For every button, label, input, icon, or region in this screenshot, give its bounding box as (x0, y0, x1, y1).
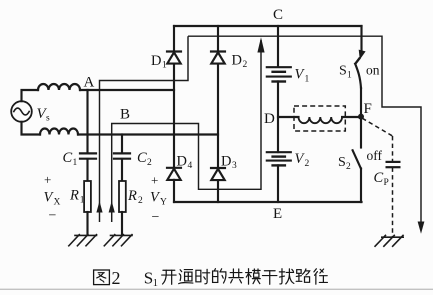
arrow path1 up (96, 201, 102, 213)
bottom rule (0, 289, 433, 290)
dashed choke box (294, 106, 345, 131)
ground under R1 (69, 235, 97, 246)
wire C node to V1 (277, 26, 279, 67)
bridge left leg lower (173, 180, 175, 202)
arrow path2 top up (257, 37, 264, 52)
svg-text:C: C (273, 7, 283, 23)
svg-text:F: F (364, 101, 372, 117)
caption glyph shi (time) (196, 269, 210, 284)
node F dot (358, 114, 364, 120)
bridge right leg lower (217, 180, 219, 202)
wire D row to choke box (278, 116, 299, 118)
dashed wire F to Cp (362, 118, 392, 136)
dashed wire Cp to ground (392, 168, 394, 237)
svg-text:D: D (177, 154, 187, 170)
svg-text:2: 2 (346, 162, 351, 172)
resistor R2 (119, 181, 126, 212)
ground under R2 (104, 235, 132, 246)
diode D1 (167, 52, 181, 64)
svg-text:1: 1 (153, 278, 158, 289)
svg-text:X: X (54, 198, 61, 208)
bridge left leg middle (173, 64, 175, 168)
svg-text:2: 2 (112, 268, 121, 288)
capacitor Cp (386, 162, 401, 167)
wire R1 to ground (86, 212, 88, 235)
interference path 2 (via R2/C2) (112, 40, 261, 222)
svg-text:D: D (232, 53, 242, 69)
svg-text:s: s (46, 114, 50, 124)
svg-text:1: 1 (73, 158, 78, 168)
arrow into S1 (359, 50, 366, 60)
svg-text:S: S (338, 155, 346, 170)
caption glyph gan (interfere) (262, 271, 276, 285)
svg-text:+: + (44, 172, 51, 187)
dashed wire to Cp top (392, 136, 394, 161)
wire source bottom stub (22, 122, 41, 135)
caption glyph kai (open) (162, 270, 176, 284)
diode D4 (167, 168, 181, 180)
wire A to bridge left leg (80, 89, 174, 91)
wire C1 to R1 (86, 159, 88, 181)
wire S1 to F (360, 88, 362, 148)
svg-text:D: D (264, 111, 275, 127)
svg-text:2: 2 (147, 158, 152, 168)
ground bottom right (375, 235, 405, 247)
wire node A down to C1 (86, 90, 88, 153)
bridge left leg upper (173, 26, 175, 52)
resistor R1 (84, 181, 91, 212)
caption glyph lu (road) (296, 269, 310, 282)
svg-text:−: − (49, 209, 57, 224)
svg-text:R: R (127, 188, 137, 204)
diode D3 (211, 168, 225, 180)
svg-text:E: E (273, 206, 282, 222)
switch S1 top lead (360, 26, 362, 51)
svg-text:1: 1 (162, 61, 167, 71)
wire choke to F (342, 116, 361, 118)
arrow path2 up (109, 201, 115, 213)
caption figure 2 (94, 268, 328, 289)
svg-text:2: 2 (305, 159, 310, 169)
svg-text:3: 3 (232, 161, 237, 171)
svg-text:1: 1 (80, 196, 85, 206)
bottom rail E (174, 201, 362, 203)
ac source Vs (11, 101, 32, 122)
caption glyph rao (disturb) (279, 269, 293, 284)
caption glyph jing (path) (314, 269, 328, 284)
bridge right leg upper (217, 26, 219, 52)
caption glyph de (of) (213, 269, 226, 283)
switch S2 blade (353, 150, 361, 168)
inductor LISN top (38, 84, 80, 90)
wire S2 to bottom rail (360, 169, 362, 203)
arrow path return down (418, 222, 425, 234)
svg-text:−: − (152, 210, 160, 225)
choke coil in dashed box (299, 117, 343, 123)
caption glyph tong (through) (179, 270, 193, 284)
svg-text:1: 1 (305, 75, 310, 85)
capacitor C2 (114, 153, 130, 158)
wire R2 to ground (121, 212, 123, 235)
svg-text:2: 2 (243, 60, 248, 70)
diode D2 (211, 52, 225, 64)
interference path 1 (via R1/C1) (100, 36, 189, 222)
inductor LISN bottom (40, 129, 78, 135)
caption glyph mo (mode) (246, 269, 261, 284)
wire source top stub (22, 90, 39, 101)
wire C2 column from B wire (121, 135, 123, 154)
top rail C (174, 25, 362, 27)
svg-text:S: S (339, 64, 347, 79)
svg-text:off: off (367, 148, 383, 163)
svg-text:C: C (137, 150, 147, 166)
battery V1 (267, 67, 291, 81)
svg-text:D: D (221, 154, 231, 170)
svg-text:4: 4 (188, 161, 193, 171)
svg-text:1: 1 (347, 71, 352, 81)
svg-text:B: B (120, 107, 130, 123)
svg-text:A: A (84, 75, 95, 91)
wire B to bridge right leg (78, 133, 218, 135)
caption glyph gong (common) (229, 269, 243, 283)
wire V2 to E (277, 165, 279, 202)
wire V1 to D to V2 (277, 82, 279, 153)
svg-text:+: + (151, 173, 158, 188)
svg-text:D: D (151, 53, 161, 69)
battery V2 (267, 152, 291, 165)
svg-text:2: 2 (138, 196, 143, 206)
svg-text:P: P (384, 178, 389, 188)
svg-text:C: C (374, 170, 384, 186)
svg-text:C: C (63, 150, 73, 166)
caption glyph tu (figure) (94, 270, 110, 285)
bridge right leg middle (217, 64, 219, 168)
interference path top return (188, 36, 421, 229)
svg-text:Y: Y (160, 198, 167, 208)
svg-text:on: on (366, 63, 380, 78)
switch S1 blade (355, 64, 361, 88)
capacitor C1 (80, 153, 96, 158)
svg-text:R: R (69, 188, 79, 204)
wire C2 to R2 (121, 159, 123, 181)
